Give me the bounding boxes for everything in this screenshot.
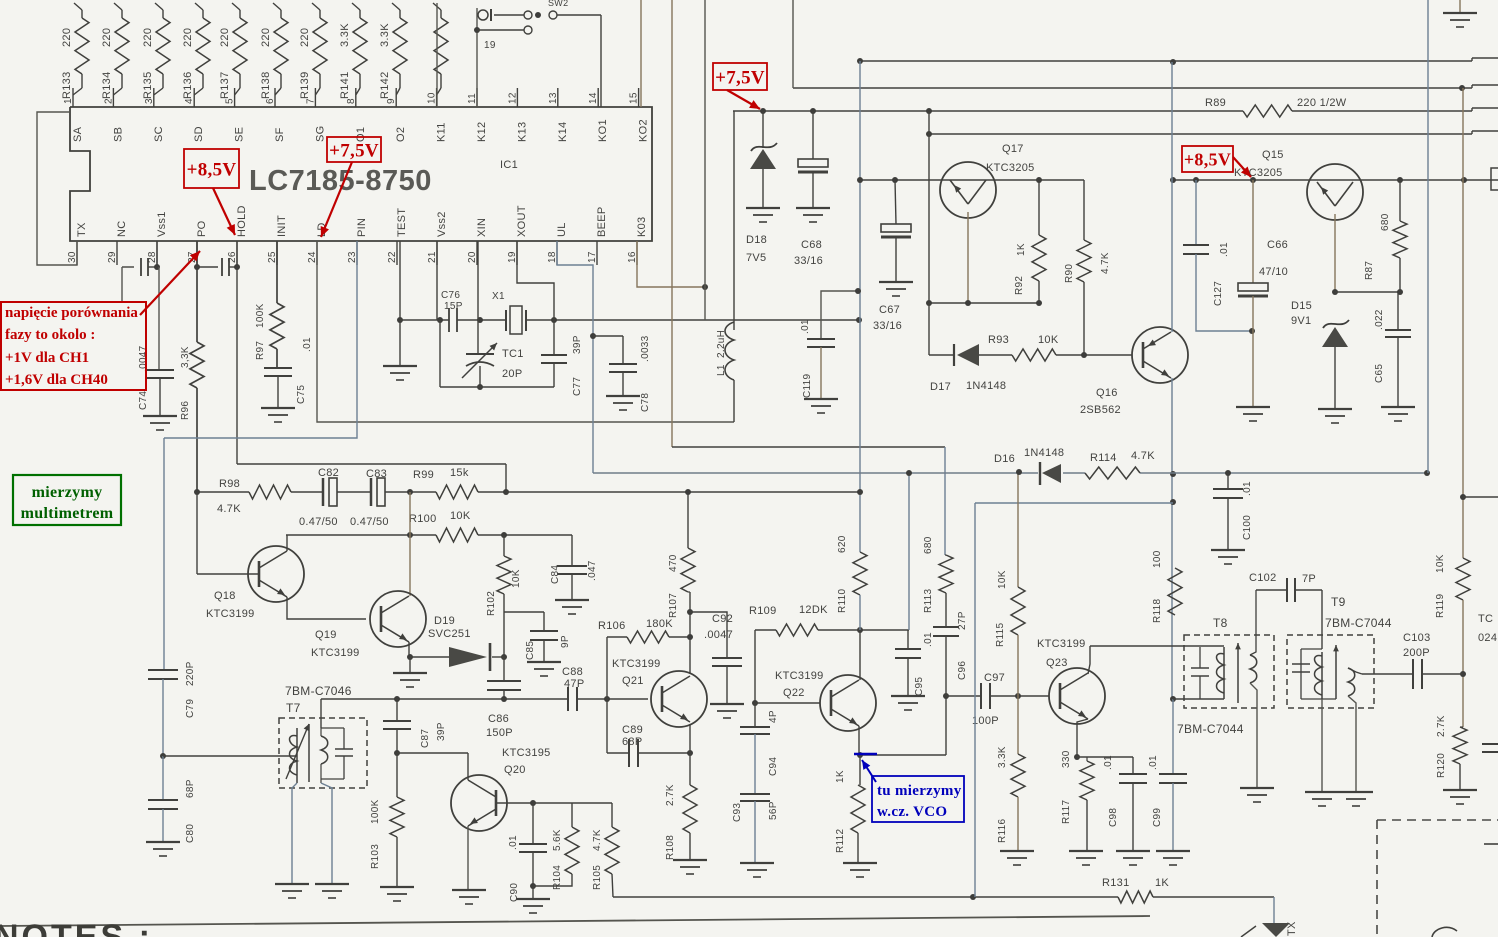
svg-text:Vss2: Vss2 [436, 211, 448, 237]
svg-text:TC: TC [1478, 613, 1493, 625]
svg-text:R87: R87 [1364, 261, 1375, 280]
svg-text:3.3K: 3.3K [379, 23, 391, 47]
svg-text:R112: R112 [835, 828, 846, 853]
svg-text:R98: R98 [219, 478, 240, 490]
svg-text:NOTES :: NOTES : [0, 918, 153, 937]
svg-text:9V1: 9V1 [1291, 315, 1311, 327]
svg-text:Q22: Q22 [783, 687, 805, 699]
svg-text:220: 220 [219, 28, 231, 47]
svg-text:200P: 200P [1403, 647, 1430, 659]
svg-text:2.7K: 2.7K [665, 784, 676, 806]
svg-text:.022: .022 [1374, 309, 1385, 330]
svg-text:14: 14 [588, 92, 599, 104]
svg-text:C92: C92 [712, 613, 733, 625]
svg-text:680: 680 [923, 536, 934, 554]
svg-text:L1: L1 [716, 364, 727, 376]
svg-text:100K: 100K [370, 799, 381, 824]
svg-text:Vss1: Vss1 [156, 211, 168, 237]
svg-text:68P: 68P [185, 779, 196, 798]
svg-text:K13: K13 [516, 122, 528, 142]
svg-text:R89: R89 [1205, 97, 1226, 109]
svg-text:R90: R90 [1064, 264, 1075, 283]
svg-text:C74: C74 [138, 391, 149, 410]
svg-text:7BM-C7044: 7BM-C7044 [1325, 616, 1392, 630]
svg-text:KTC3205: KTC3205 [1234, 167, 1283, 179]
svg-text:680: 680 [1380, 213, 1391, 231]
svg-text:Q23: Q23 [1046, 657, 1068, 669]
svg-text:.0033: .0033 [640, 335, 651, 362]
svg-text:100K: 100K [255, 303, 266, 328]
svg-text:C94: C94 [768, 757, 779, 776]
svg-text:C68: C68 [801, 239, 822, 251]
svg-text:C65: C65 [1374, 364, 1385, 383]
svg-text:BEEP: BEEP [596, 206, 608, 237]
svg-text:5.6K: 5.6K [552, 829, 563, 851]
svg-text:R117: R117 [1061, 799, 1072, 824]
svg-text:SG: SG [314, 126, 326, 143]
svg-text:1N4148: 1N4148 [1024, 447, 1064, 459]
svg-text:SF: SF [274, 127, 286, 142]
svg-text:C93: C93 [732, 803, 743, 822]
svg-text:R92: R92 [1014, 276, 1025, 295]
svg-text:220: 220 [101, 28, 113, 47]
svg-text:R105: R105 [592, 865, 603, 890]
svg-text:T7: T7 [286, 701, 301, 715]
svg-text:.0047: .0047 [704, 629, 733, 641]
svg-text:C66: C66 [1267, 239, 1288, 251]
svg-text:R134: R134 [101, 72, 113, 100]
svg-text:20: 20 [467, 251, 478, 263]
svg-text:TX: TX [76, 222, 88, 237]
svg-text:10K: 10K [1038, 334, 1059, 346]
svg-text:+1V dla CH1: +1V dla CH1 [5, 350, 89, 366]
svg-text:multimetrem: multimetrem [21, 505, 114, 522]
svg-text:3.3K: 3.3K [997, 746, 1008, 768]
svg-text:C100: C100 [1242, 515, 1253, 540]
svg-text:220: 220 [299, 28, 311, 47]
svg-text:1K: 1K [1016, 243, 1027, 256]
svg-text:D15: D15 [1291, 300, 1312, 312]
svg-text:KTC3199: KTC3199 [1037, 638, 1086, 650]
svg-text:17: 17 [587, 251, 598, 263]
svg-text:180K: 180K [646, 618, 673, 630]
svg-text:R107: R107 [668, 593, 679, 618]
svg-text:tu mierzymy: tu mierzymy [877, 783, 962, 799]
svg-text:fazy to okolo :: fazy to okolo : [5, 327, 95, 343]
svg-text:R99: R99 [413, 469, 434, 481]
svg-text:Q20: Q20 [504, 764, 526, 776]
svg-text:R142: R142 [379, 72, 391, 100]
svg-text:SVC251: SVC251 [428, 628, 471, 640]
svg-text:1K: 1K [1155, 877, 1169, 889]
svg-text:D19: D19 [434, 615, 455, 627]
svg-text:15k: 15k [450, 467, 469, 479]
svg-text:7P: 7P [1302, 573, 1316, 585]
svg-text:15: 15 [629, 92, 640, 104]
svg-text:4.7K: 4.7K [1131, 450, 1155, 462]
svg-text:1K: 1K [835, 770, 846, 783]
svg-text:C76: C76 [441, 290, 460, 301]
svg-text:0.47/50: 0.47/50 [299, 516, 338, 528]
svg-text:KTC3199: KTC3199 [311, 647, 360, 659]
svg-text:7BM-C7044: 7BM-C7044 [1177, 722, 1244, 736]
svg-text:C95: C95 [914, 677, 925, 696]
svg-text:X1: X1 [492, 291, 505, 302]
svg-text:C127: C127 [1213, 281, 1224, 306]
svg-text:C88: C88 [562, 666, 583, 678]
svg-text:.01: .01 [508, 835, 519, 850]
svg-text:.01: .01 [1148, 755, 1159, 770]
svg-text:INIT: INIT [276, 215, 288, 237]
svg-text:w.cz. VCO: w.cz. VCO [877, 804, 947, 820]
svg-text:024: 024 [1478, 632, 1497, 644]
svg-text:220P: 220P [185, 661, 196, 686]
svg-text:PO: PO [196, 220, 208, 237]
svg-text:D16: D16 [994, 453, 1015, 465]
svg-text:+7,5V: +7,5V [715, 67, 765, 88]
svg-text:.01: .01 [1103, 755, 1114, 770]
svg-text:9P: 9P [560, 635, 571, 648]
svg-text:Q17: Q17 [1002, 143, 1024, 155]
svg-text:R113: R113 [923, 588, 934, 613]
svg-text:T9: T9 [1331, 595, 1346, 609]
svg-text:12DK: 12DK [799, 604, 828, 616]
svg-text:13: 13 [548, 92, 559, 104]
svg-text:220 1/2W: 220 1/2W [1297, 97, 1347, 109]
svg-text:47/10: 47/10 [1259, 266, 1288, 278]
svg-text:SE: SE [234, 127, 246, 142]
svg-text:330: 330 [1061, 750, 1072, 768]
svg-text:R116: R116 [997, 818, 1008, 843]
svg-text:39P: 39P [572, 335, 583, 354]
svg-text:UL: UL [556, 222, 568, 237]
svg-text:27P: 27P [957, 611, 968, 630]
svg-text:C119: C119 [802, 373, 813, 398]
svg-text:KO2: KO2 [638, 119, 650, 142]
svg-text:R103: R103 [370, 844, 381, 869]
svg-text:K14: K14 [557, 122, 569, 142]
svg-text:C82: C82 [318, 467, 339, 479]
svg-text:KTC3195: KTC3195 [502, 747, 551, 759]
svg-text:C102: C102 [1249, 572, 1277, 584]
svg-text:T8: T8 [1213, 616, 1228, 630]
svg-text:C85: C85 [525, 641, 536, 660]
svg-text:R141: R141 [339, 72, 351, 100]
svg-text:10K: 10K [450, 510, 471, 522]
svg-text:R102: R102 [486, 591, 497, 616]
svg-text:.01: .01 [1242, 481, 1253, 496]
svg-text:.01: .01 [800, 319, 811, 334]
svg-text:7BM-C7046: 7BM-C7046 [285, 684, 352, 698]
svg-text:R135: R135 [142, 72, 154, 100]
svg-text:4.7K: 4.7K [1100, 252, 1111, 274]
svg-text:20P: 20P [502, 368, 522, 380]
svg-text:19: 19 [484, 40, 496, 51]
svg-text:0.47/50: 0.47/50 [350, 516, 389, 528]
svg-text:33/16: 33/16 [873, 320, 902, 332]
svg-text:R115: R115 [995, 622, 1006, 647]
svg-text:3,3K: 3,3K [180, 346, 191, 368]
svg-text:D17: D17 [930, 381, 951, 393]
svg-text:10: 10 [427, 92, 438, 104]
svg-text:22: 22 [387, 251, 398, 263]
svg-text:SA: SA [72, 126, 84, 142]
svg-text:470: 470 [668, 554, 679, 572]
svg-text:4.7K: 4.7K [217, 503, 241, 515]
svg-text:29: 29 [107, 251, 118, 263]
svg-text:.01: .01 [302, 337, 313, 352]
svg-text:C97: C97 [984, 672, 1005, 684]
svg-text:R104: R104 [552, 865, 563, 890]
svg-text:mierzymy: mierzymy [32, 484, 103, 501]
svg-text:+8,5V: +8,5V [1184, 149, 1231, 169]
svg-text:C77: C77 [572, 377, 583, 396]
svg-text:TC1: TC1 [502, 348, 524, 360]
svg-text:K11: K11 [436, 122, 448, 142]
svg-text:.047: .047 [587, 560, 598, 581]
svg-text:R137: R137 [219, 72, 231, 100]
svg-text:C96: C96 [957, 661, 968, 680]
svg-text:220: 220 [61, 28, 73, 47]
svg-text:2SB562: 2SB562 [1080, 404, 1121, 416]
svg-text:XIN: XIN [476, 218, 488, 237]
svg-text:K03: K03 [636, 217, 648, 237]
svg-text:SW2: SW2 [548, 0, 568, 8]
svg-text:2.7K: 2.7K [1436, 715, 1447, 737]
svg-text:.01: .01 [923, 632, 934, 647]
svg-text:100P: 100P [972, 715, 999, 727]
svg-text:+7,5V: +7,5V [329, 140, 379, 161]
svg-text:39P: 39P [436, 722, 447, 741]
svg-text:15P: 15P [444, 301, 463, 312]
svg-text:R119: R119 [1435, 593, 1446, 618]
svg-text:C84: C84 [550, 565, 561, 584]
svg-text:NC: NC [116, 221, 128, 238]
svg-text:K12: K12 [476, 122, 488, 142]
svg-text:.0047: .0047 [138, 345, 149, 372]
svg-text:TX: TX [1286, 921, 1298, 936]
svg-text:7V5: 7V5 [746, 252, 766, 264]
svg-text:C67: C67 [879, 304, 900, 316]
svg-text:.01: .01 [1219, 242, 1230, 257]
svg-text:R108: R108 [665, 835, 676, 860]
svg-text:C98: C98 [1108, 808, 1119, 827]
svg-text:R93: R93 [988, 334, 1009, 346]
svg-text:220: 220 [182, 28, 194, 47]
svg-text:C80: C80 [185, 824, 196, 843]
svg-text:KTC3199: KTC3199 [206, 608, 255, 620]
svg-text:68P: 68P [622, 736, 642, 748]
svg-text:620: 620 [837, 535, 848, 553]
svg-text:10K: 10K [1435, 554, 1446, 573]
svg-text:+8,5V: +8,5V [187, 159, 237, 180]
svg-text:150P: 150P [486, 727, 513, 739]
svg-text:3.3K: 3.3K [339, 23, 351, 47]
svg-text:C75: C75 [296, 385, 307, 404]
svg-text:Q19: Q19 [315, 629, 337, 641]
svg-text:HOLD: HOLD [236, 205, 248, 237]
svg-text:C86: C86 [488, 713, 509, 725]
svg-text:220: 220 [142, 28, 154, 47]
svg-text:R110: R110 [837, 588, 848, 613]
svg-text:napięcie porównania: napięcie porównania [5, 305, 138, 321]
svg-text:C79: C79 [185, 699, 196, 718]
svg-text:C78: C78 [640, 393, 651, 412]
svg-text:XOUT: XOUT [516, 205, 528, 237]
svg-text:+1,6V dla CH40: +1,6V dla CH40 [5, 372, 108, 388]
svg-text:C90: C90 [509, 883, 520, 902]
svg-text:O2: O2 [395, 127, 407, 142]
svg-text:Q21: Q21 [622, 675, 644, 687]
svg-text:SC: SC [153, 126, 165, 142]
svg-text:Q18: Q18 [214, 590, 236, 602]
svg-text:R100: R100 [409, 513, 437, 525]
svg-text:IC1: IC1 [500, 159, 518, 171]
svg-text:R118: R118 [1152, 598, 1163, 623]
svg-text:47P: 47P [564, 678, 584, 690]
svg-text:R106: R106 [598, 620, 626, 632]
svg-text:C87: C87 [420, 729, 431, 748]
svg-text:R109: R109 [749, 605, 777, 617]
svg-text:D18: D18 [746, 234, 767, 246]
svg-text:33/16: 33/16 [794, 255, 823, 267]
svg-text:KTC3199: KTC3199 [612, 658, 661, 670]
svg-text:C89: C89 [622, 724, 643, 736]
svg-text:Q16: Q16 [1096, 387, 1118, 399]
svg-text:1N4148: 1N4148 [966, 380, 1006, 392]
svg-text:56P: 56P [768, 801, 779, 820]
svg-text:R114: R114 [1090, 452, 1117, 464]
svg-text:KTC3205: KTC3205 [986, 162, 1035, 174]
svg-text:C103: C103 [1403, 632, 1431, 644]
svg-text:KTC3199: KTC3199 [775, 670, 824, 682]
svg-text:220: 220 [260, 28, 272, 47]
svg-text:10K: 10K [511, 569, 522, 588]
svg-text:R139: R139 [299, 72, 311, 100]
svg-text:TEST: TEST [396, 208, 408, 237]
svg-text:C99: C99 [1152, 808, 1163, 827]
svg-text:4P: 4P [768, 710, 779, 723]
svg-text:12: 12 [507, 92, 518, 104]
svg-text:R133: R133 [61, 72, 73, 100]
svg-text:100: 100 [1152, 550, 1163, 568]
svg-text:2.2uH: 2.2uH [716, 330, 727, 358]
svg-text:R120: R120 [1436, 753, 1447, 778]
svg-text:SB: SB [112, 127, 124, 142]
svg-text:4.7K: 4.7K [592, 829, 603, 851]
svg-text:R136: R136 [182, 72, 194, 100]
svg-text:R97: R97 [255, 341, 266, 360]
svg-text:10K: 10K [997, 570, 1008, 589]
svg-text:R96: R96 [180, 401, 191, 420]
svg-text:KO1: KO1 [597, 119, 609, 142]
svg-text:R138: R138 [260, 72, 272, 100]
svg-text:SD: SD [193, 126, 205, 142]
svg-text:C83: C83 [366, 468, 387, 480]
svg-text:Q15: Q15 [1262, 149, 1284, 161]
svg-text:R131: R131 [1102, 877, 1130, 889]
svg-text:PIN: PIN [356, 218, 368, 237]
